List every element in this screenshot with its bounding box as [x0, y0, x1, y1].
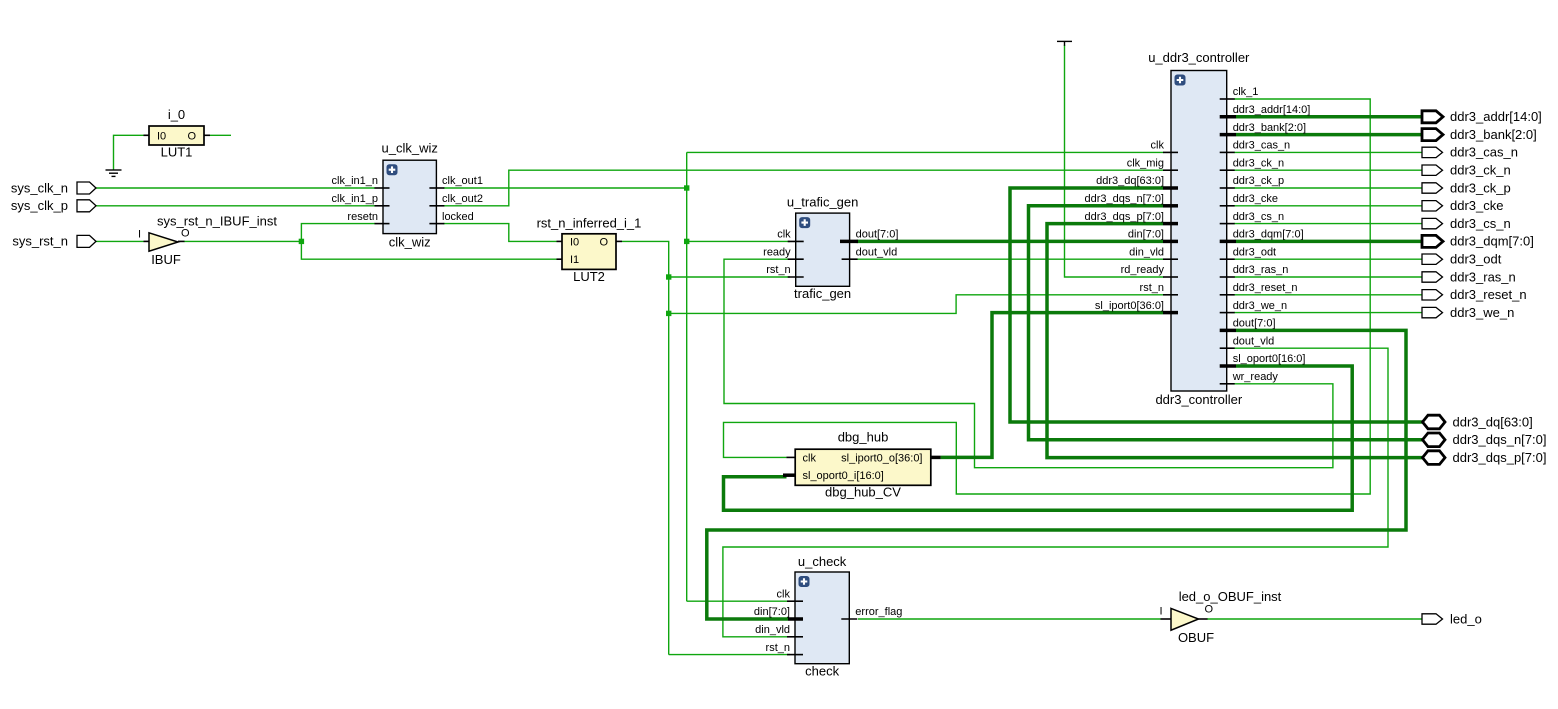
svg-text:LUT2: LUT2	[573, 269, 605, 284]
svg-text:dbg_hub: dbg_hub	[838, 430, 889, 445]
svg-text:O: O	[1205, 604, 1214, 616]
svg-text:O: O	[599, 236, 608, 248]
svg-text:ddr3_odt: ddr3_odt	[1450, 252, 1502, 267]
svg-text:ddr3_dq[63:0]: ddr3_dq[63:0]	[1096, 175, 1164, 187]
svg-text:din[7:0]: din[7:0]	[754, 606, 790, 618]
svg-text:sl_oport0[16:0]: sl_oport0[16:0]	[1233, 353, 1306, 365]
svg-text:sl_iport0_o[36:0]: sl_iport0_o[36:0]	[841, 452, 922, 464]
svg-text:rst_n_inferred_i_1: rst_n_inferred_i_1	[537, 215, 642, 230]
svg-text:rst_n: rst_n	[766, 264, 790, 276]
svg-text:ddr3_odt: ddr3_odt	[1233, 246, 1276, 258]
svg-text:ddr3_ras_n: ddr3_ras_n	[1233, 264, 1289, 276]
svg-text:rd_ready: rd_ready	[1121, 264, 1165, 276]
svg-text:sl_iport0[36:0]: sl_iport0[36:0]	[1095, 300, 1164, 312]
svg-text:ready: ready	[763, 246, 791, 258]
svg-text:ddr3_ck_n: ddr3_ck_n	[1233, 157, 1284, 169]
svg-text:rst_n: rst_n	[766, 642, 790, 654]
svg-text:I: I	[1159, 606, 1162, 618]
svg-text:LUT1: LUT1	[161, 145, 193, 160]
svg-text:I0: I0	[157, 130, 166, 142]
svg-text:clk_wiz: clk_wiz	[389, 235, 431, 250]
svg-text:u_check: u_check	[798, 554, 847, 569]
svg-text:ddr3_dqs_n[7:0]: ddr3_dqs_n[7:0]	[1084, 193, 1164, 205]
svg-text:clk_in1_n: clk_in1_n	[332, 175, 378, 187]
svg-text:ddr3_reset_n: ddr3_reset_n	[1233, 282, 1298, 294]
svg-text:led_o_OBUF_inst: led_o_OBUF_inst	[1179, 589, 1282, 604]
svg-text:ddr3_cke: ddr3_cke	[1233, 193, 1278, 205]
svg-text:din_vld: din_vld	[755, 624, 790, 636]
svg-text:clk_1: clk_1	[1233, 86, 1259, 98]
svg-text:O: O	[187, 130, 196, 142]
svg-text:clk_out1: clk_out1	[442, 175, 483, 187]
svg-text:wr_ready: wr_ready	[1232, 371, 1279, 383]
svg-text:sl_oport0_i[16:0]: sl_oport0_i[16:0]	[803, 470, 884, 482]
svg-text:dbg_hub_CV: dbg_hub_CV	[825, 485, 901, 500]
svg-text:I0: I0	[570, 236, 579, 248]
svg-text:ddr3_reset_n: ddr3_reset_n	[1450, 287, 1527, 302]
svg-text:ddr3_ck_p: ddr3_ck_p	[1233, 175, 1284, 187]
svg-text:ddr3_bank[2:0]: ddr3_bank[2:0]	[1233, 122, 1306, 134]
svg-text:ddr3_ras_n: ddr3_ras_n	[1450, 269, 1516, 284]
svg-text:I1: I1	[570, 254, 579, 266]
svg-text:ddr3_dqs_p[7:0]: ddr3_dqs_p[7:0]	[1084, 211, 1164, 223]
svg-text:ddr3_we_n: ddr3_we_n	[1450, 305, 1514, 320]
svg-text:ddr3_cas_n: ddr3_cas_n	[1233, 140, 1291, 152]
svg-text:ddr3_cke: ddr3_cke	[1450, 198, 1503, 213]
svg-text:dout[7:0]: dout[7:0]	[856, 229, 899, 241]
svg-text:sys_rst_n: sys_rst_n	[12, 234, 68, 249]
svg-text:ddr3_we_n: ddr3_we_n	[1233, 300, 1287, 312]
svg-text:dout_vld: dout_vld	[1233, 335, 1275, 347]
svg-text:sys_clk_n: sys_clk_n	[11, 180, 68, 195]
svg-text:clk_mig: clk_mig	[1127, 157, 1164, 169]
svg-text:ddr3_bank[2:0]: ddr3_bank[2:0]	[1450, 127, 1537, 142]
svg-text:rst_n: rst_n	[1140, 282, 1164, 294]
svg-text:i_0: i_0	[168, 107, 185, 122]
svg-text:u_trafic_gen: u_trafic_gen	[787, 195, 859, 210]
svg-text:clk: clk	[803, 452, 817, 464]
svg-text:I: I	[138, 229, 141, 241]
svg-text:ddr3_ck_n: ddr3_ck_n	[1450, 163, 1511, 178]
svg-text:u_ddr3_controller: u_ddr3_controller	[1148, 50, 1250, 65]
svg-text:error_flag: error_flag	[855, 606, 902, 618]
svg-text:ddr3_addr[14:0]: ddr3_addr[14:0]	[1450, 109, 1542, 124]
svg-text:ddr3_dq[63:0]: ddr3_dq[63:0]	[1453, 414, 1533, 429]
svg-text:O: O	[181, 228, 190, 240]
svg-text:clk: clk	[1151, 140, 1165, 152]
svg-text:ddr3_dqs_n[7:0]: ddr3_dqs_n[7:0]	[1453, 432, 1547, 447]
svg-text:clk: clk	[777, 229, 791, 241]
svg-text:sys_clk_p: sys_clk_p	[11, 198, 68, 213]
svg-text:ddr3_ck_p: ddr3_ck_p	[1450, 180, 1511, 195]
svg-text:resetn: resetn	[347, 211, 378, 223]
svg-text:ddr3_controller: ddr3_controller	[1155, 392, 1242, 407]
svg-text:clk: clk	[777, 588, 791, 600]
svg-text:ddr3_addr[14:0]: ddr3_addr[14:0]	[1233, 104, 1311, 116]
svg-text:ddr3_dqm[7:0]: ddr3_dqm[7:0]	[1450, 234, 1534, 249]
svg-text:check: check	[805, 664, 839, 679]
svg-text:sys_rst_n_IBUF_inst: sys_rst_n_IBUF_inst	[157, 213, 277, 228]
svg-text:din_vld: din_vld	[1129, 246, 1164, 258]
svg-text:locked: locked	[442, 211, 474, 223]
svg-text:trafic_gen: trafic_gen	[794, 286, 851, 301]
svg-text:dout[7:0]: dout[7:0]	[1233, 318, 1276, 330]
svg-text:clk_out2: clk_out2	[442, 193, 483, 205]
svg-text:ddr3_dqm[7:0]: ddr3_dqm[7:0]	[1233, 229, 1304, 241]
svg-text:IBUF: IBUF	[151, 252, 181, 267]
svg-text:ddr3_dqs_p[7:0]: ddr3_dqs_p[7:0]	[1453, 450, 1547, 465]
svg-text:clk_in1_p: clk_in1_p	[332, 193, 378, 205]
svg-text:ddr3_cs_n: ddr3_cs_n	[1233, 211, 1284, 223]
svg-text:led_o: led_o	[1450, 611, 1482, 626]
svg-text:ddr3_cs_n: ddr3_cs_n	[1450, 216, 1511, 231]
svg-text:OBUF: OBUF	[1178, 630, 1214, 645]
svg-text:u_clk_wiz: u_clk_wiz	[382, 141, 438, 156]
svg-text:din[7:0]: din[7:0]	[1128, 229, 1164, 241]
svg-text:dout_vld: dout_vld	[856, 246, 898, 258]
svg-text:ddr3_cas_n: ddr3_cas_n	[1450, 145, 1518, 160]
